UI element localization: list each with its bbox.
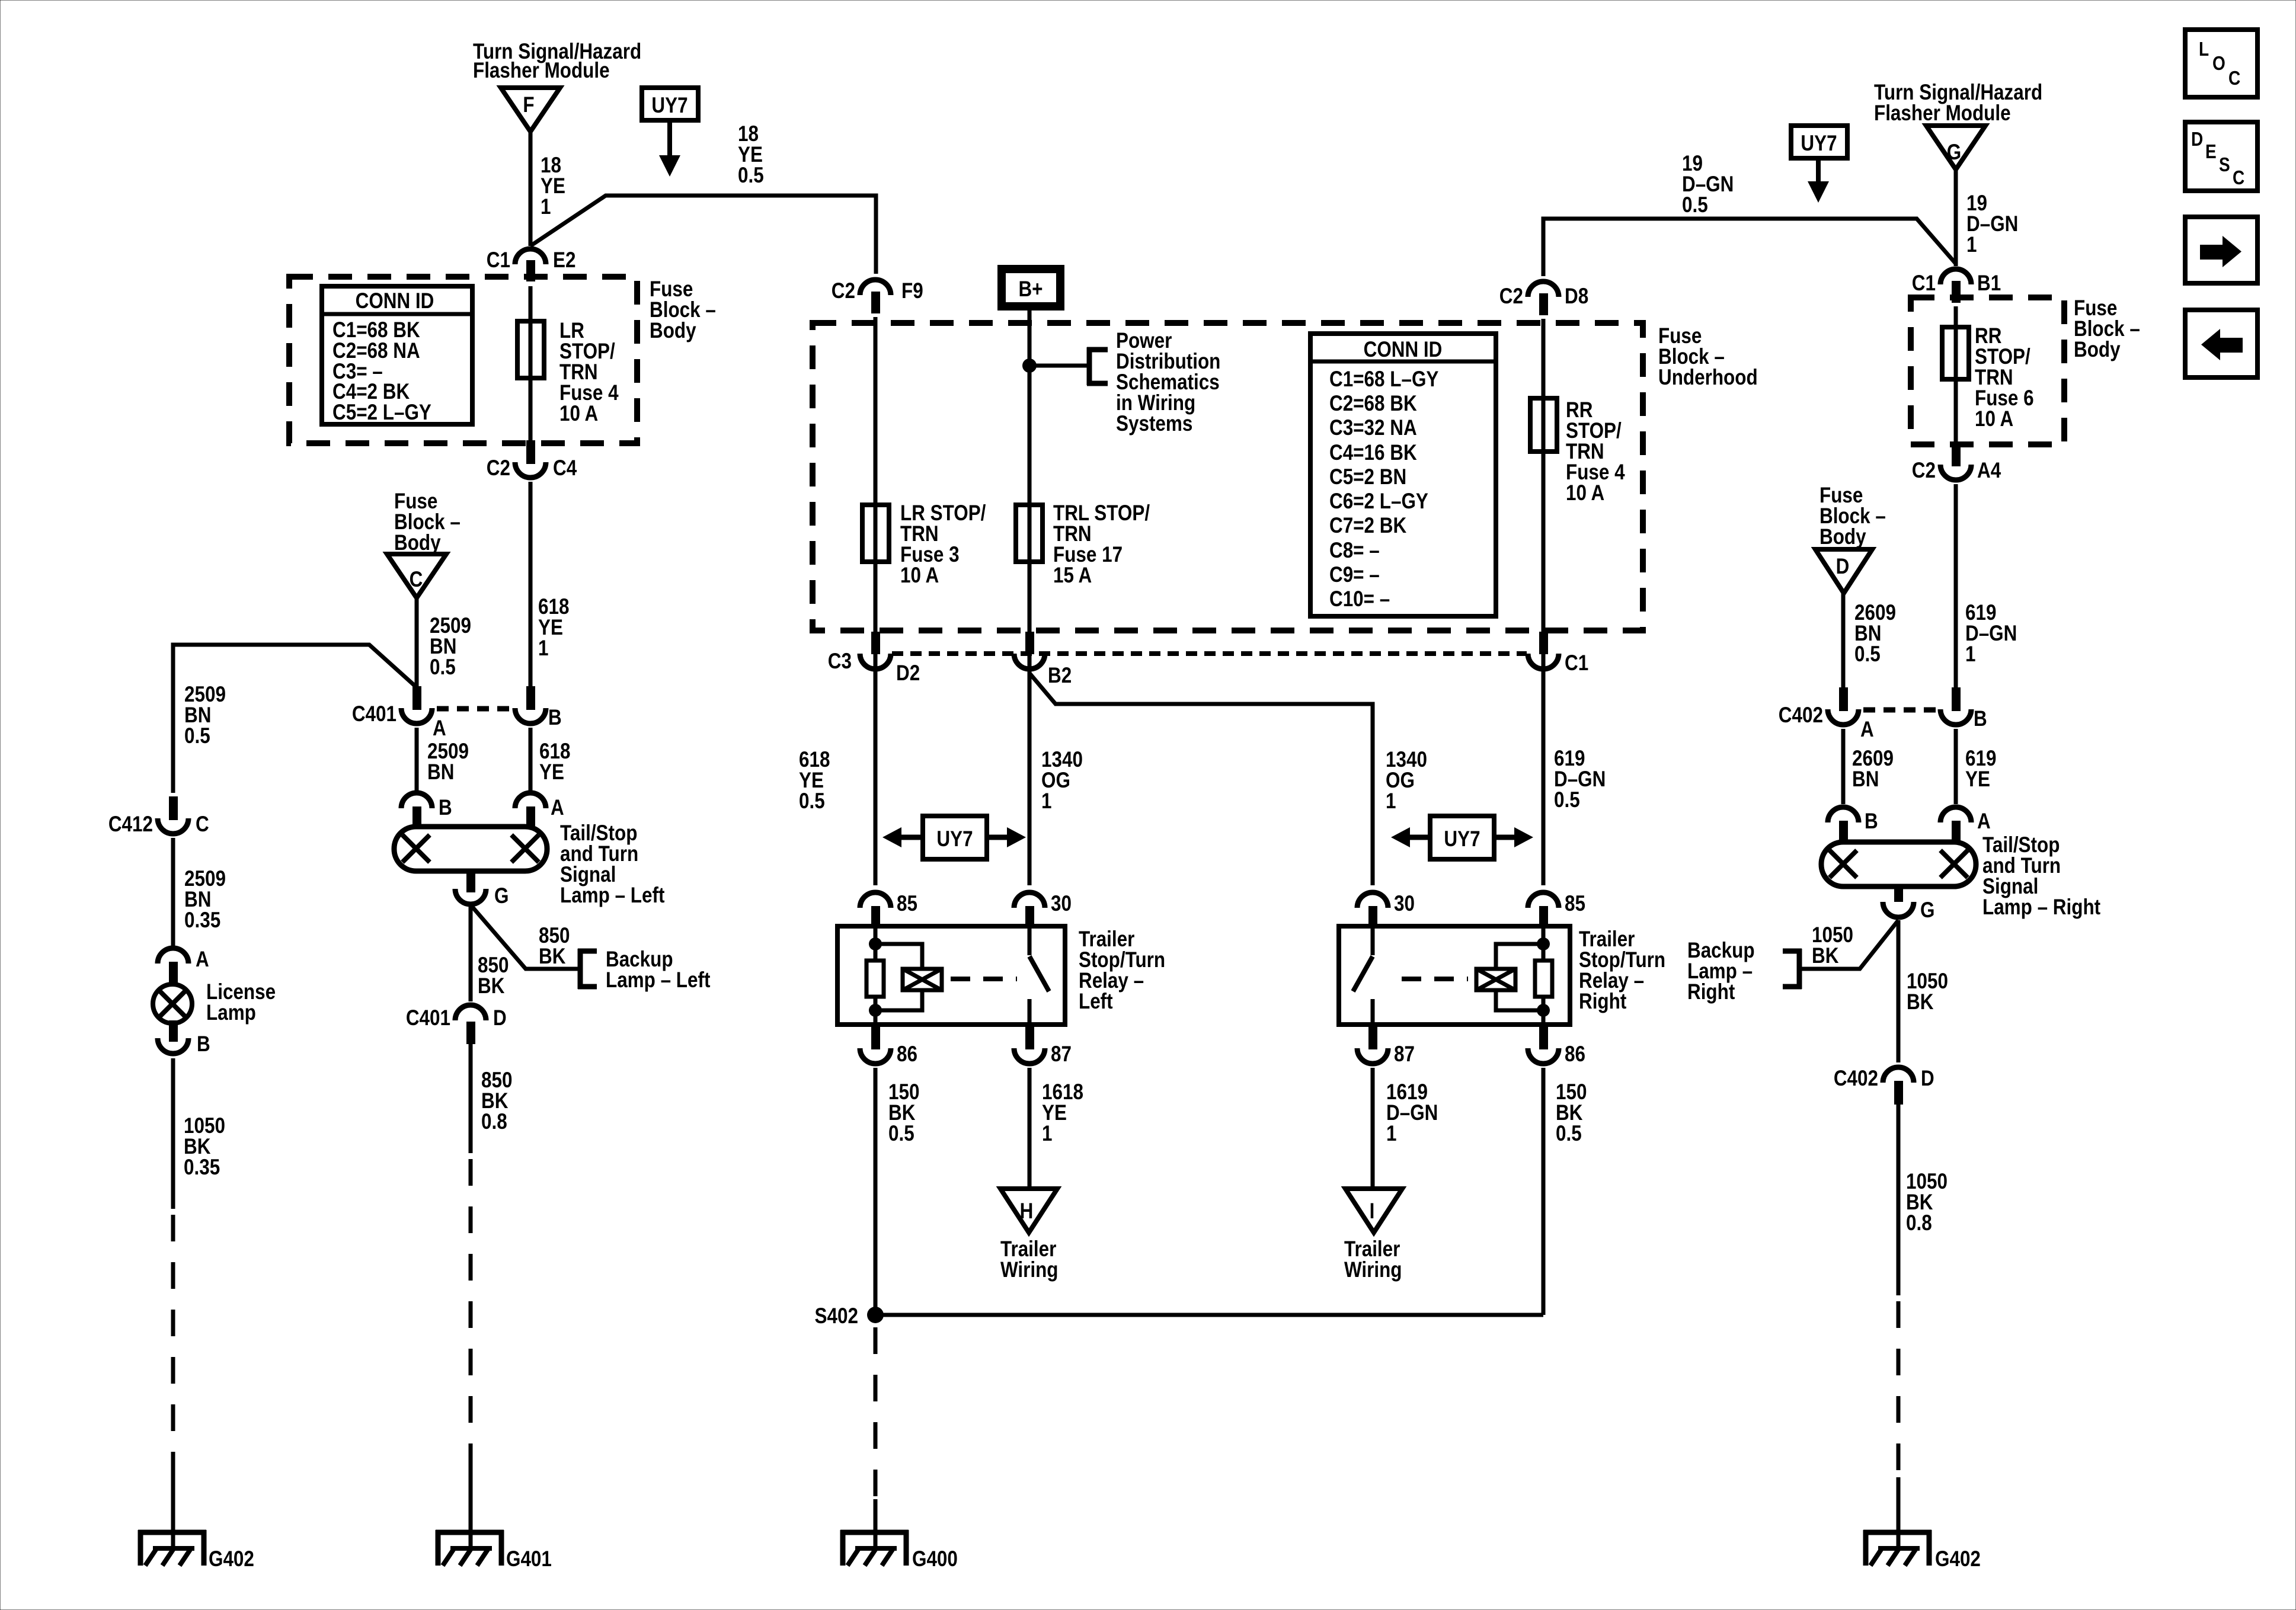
off-page triangle connector I: [1345, 1189, 1402, 1233]
svg-text:0.8: 0.8: [1906, 1211, 1932, 1235]
wire label 618 YE 0.5: [799, 748, 830, 814]
connector C3/D2: [828, 632, 920, 686]
svg-text:Systems: Systems: [1116, 412, 1192, 436]
wire 86 left to S402: [874, 1068, 878, 1315]
CONN ID table (body fuse block): [322, 286, 472, 425]
svg-text:1: 1: [1042, 1122, 1052, 1146]
dashed box Fuse Block - Body (right): [1911, 297, 2064, 444]
svg-text:Left: Left: [1079, 990, 1113, 1014]
fuse RR STOP/TRN Fuse 4 (underhood): [1530, 398, 1557, 452]
svg-text:86: 86: [897, 1042, 917, 1067]
label RR STOP/TRN Fuse 4 10 A: [1566, 398, 1625, 505]
svg-text:B1: B1: [1977, 271, 2001, 296]
label LR STOP/TRN Fuse 3 10 A: [900, 501, 986, 588]
label Trailer Stop/Turn Relay - Right: [1579, 927, 1665, 1014]
svg-text:C1=68 L–GY: C1=68 L–GY: [1329, 367, 1438, 392]
svg-text:C1: C1: [1912, 271, 1936, 296]
connector 85 (relay right): [1528, 892, 1585, 929]
svg-text:1: 1: [1386, 1122, 1396, 1146]
resistor (relay left): [866, 961, 884, 997]
dashed connector link C402: [1863, 708, 1937, 713]
junction node (relay left top): [869, 937, 882, 950]
wire D to ground G401: [469, 1044, 473, 1532]
switch (relay right): [1353, 926, 1373, 1025]
reference box UY7 (top left): [642, 88, 698, 120]
svg-text:A: A: [433, 716, 446, 741]
svg-text:Right: Right: [1579, 990, 1627, 1014]
svg-text:G401: G401: [506, 1547, 552, 1571]
svg-text:C4=16 BK: C4=16 BK: [1329, 441, 1417, 465]
wire label 19 D-GN 1: [1966, 191, 2018, 257]
svg-text:F9: F9: [901, 279, 923, 303]
svg-text:0.5: 0.5: [1682, 193, 1708, 217]
legend box DESC: [2185, 122, 2257, 191]
fuse LR STOP/TRN Fuse 3: [862, 505, 889, 562]
wire G diagonal to backup lamp right: [1799, 920, 1898, 969]
svg-text:15 A: 15 A: [1053, 564, 1092, 588]
wire F9 through Fuse 3 to C3: [874, 317, 878, 687]
ground G402 (right): [1863, 1530, 1981, 1571]
label Tail/Stop and Turn Signal Lamp - Right: [1982, 833, 2101, 920]
label Turn Signal/Hazard Flasher Module (right): [1874, 81, 2042, 126]
svg-text:D: D: [493, 1006, 507, 1030]
wire label 1340 OG 1 (right): [1386, 748, 1427, 814]
svg-text:C2: C2: [1499, 284, 1523, 309]
svg-text:Lamp: Lamp: [206, 1001, 256, 1025]
svg-text:10 A: 10 A: [559, 402, 598, 426]
wire D to C402-A: [1841, 593, 1846, 687]
wire through fuse 4: [529, 286, 533, 443]
svg-text:C5=2 L–GY: C5=2 L–GY: [332, 401, 431, 425]
label Fuse Block - Underhood: [1658, 324, 1758, 390]
wire label 2509 BN 0.5 (upper): [430, 614, 471, 680]
svg-text:C: C: [2228, 68, 2240, 89]
svg-text:C1: C1: [487, 248, 510, 273]
wire TRL fuse 17: [1016, 505, 1043, 562]
switch (relay left): [1029, 926, 1049, 1025]
fuse RR STOP/TRN Fuse 6: [1942, 327, 1969, 379]
wire label 850 BK (diagonal): [539, 924, 570, 969]
wire label 619 D-GN 0.5: [1554, 747, 1606, 812]
wire label 18 YE 1: [541, 153, 565, 219]
connector C401-D: [406, 1005, 507, 1044]
svg-text:Body: Body: [2074, 338, 2121, 362]
wire label 618 YE: [539, 740, 570, 785]
linkage dashed (relay right): [1402, 977, 1468, 981]
svg-text:0.5: 0.5: [888, 1122, 914, 1146]
wire label 619 D-GN 1: [1965, 601, 2017, 667]
svg-text:C10= –: C10= –: [1329, 587, 1390, 612]
wire B to ground G402 (left): [171, 1058, 175, 1532]
svg-text:A: A: [1860, 718, 1874, 742]
svg-text:0.5: 0.5: [430, 655, 456, 680]
label Fuse Block - Body (C triangle): [394, 489, 461, 555]
connector C2/F9: [832, 279, 923, 313]
svg-text:O: O: [2212, 53, 2225, 75]
splice S402 horizontal wire: [875, 1313, 1543, 1317]
connector 30 (relay left): [1014, 892, 1072, 929]
off-page triangle connector F: [501, 88, 560, 132]
svg-text:BK: BK: [539, 945, 566, 969]
label Trailer Stop/Turn Relay - Left: [1079, 927, 1165, 1014]
svg-text:0.5: 0.5: [1554, 788, 1580, 812]
connector 86 (relay right): [1528, 1027, 1585, 1067]
svg-text:0.35: 0.35: [184, 1156, 220, 1180]
svg-text:C2: C2: [832, 279, 855, 303]
svg-text:Flasher Module: Flasher Module: [1874, 101, 2011, 126]
svg-text:C2: C2: [1912, 459, 1936, 483]
svg-text:G: G: [494, 884, 509, 908]
connector C401-A: [352, 686, 446, 741]
wire label 619 YE: [1965, 747, 1996, 792]
svg-text:UY7: UY7: [936, 827, 973, 852]
connector 85 (relay left): [860, 892, 917, 929]
arrow from UY7 down: [659, 120, 680, 177]
connector C402-A: [1779, 687, 1874, 742]
wire G diagonal to backup lamp left: [471, 905, 580, 969]
svg-text:S402: S402: [815, 1304, 858, 1329]
svg-text:A: A: [196, 948, 209, 972]
wire label 850 BK (vertical): [478, 953, 509, 998]
label Power Distribution Schematics in Wiring Systems: [1116, 329, 1220, 436]
coil (relay left): [903, 969, 942, 990]
wire label 2509 BN 0.5 (left): [184, 683, 226, 748]
svg-text:1: 1: [1966, 233, 1977, 257]
off-page triangle connector C: [387, 554, 446, 598]
power feed B+: [1002, 269, 1060, 306]
svg-text:G402: G402: [1935, 1547, 1981, 1571]
svg-text:B: B: [197, 1032, 210, 1057]
trailer stop/turn relay - left box: [837, 926, 1065, 1025]
svg-text:UY7: UY7: [1444, 827, 1480, 852]
svg-text:BK: BK: [1812, 944, 1839, 968]
wire 87 right to I: [1371, 1068, 1375, 1189]
wire C401-A to lamp B: [415, 728, 419, 791]
wire C1 to relay 85 (right): [1542, 673, 1546, 885]
svg-text:C2: C2: [487, 456, 510, 481]
legend box LOC: [2185, 30, 2257, 97]
ground G402 (left): [138, 1530, 254, 1571]
dotted harness boundary: [892, 651, 1527, 656]
svg-text:87: 87: [1051, 1042, 1072, 1067]
wire fuse 17 to B2: [1028, 562, 1032, 687]
wire G to C1/B1: [1954, 169, 1958, 266]
svg-text:H: H: [1020, 1199, 1034, 1224]
off-page triangle connector G: [1926, 126, 1985, 169]
svg-text:D: D: [2191, 129, 2203, 151]
connector A (tail lamp right): [1940, 807, 1991, 844]
svg-text:C3: C3: [828, 649, 852, 674]
svg-text:C401: C401: [406, 1006, 450, 1030]
CONN ID table (underhood fuse block): [1310, 334, 1496, 616]
wire label 2509 BN 0.35: [184, 867, 226, 933]
tail/stop and turn signal lamp - right: [1821, 842, 1976, 886]
svg-text:Lamp – Left: Lamp – Left: [560, 884, 665, 908]
wire branch to license lamp: [173, 645, 417, 793]
dashed box Fuse Block - Underhood: [813, 323, 1643, 630]
svg-text:1: 1: [1386, 789, 1396, 814]
trailer stop/turn relay - right box: [1339, 926, 1570, 1025]
svg-text:1: 1: [1041, 789, 1051, 814]
wire junction to power distribution bracket: [1029, 364, 1089, 368]
wire B+ down to Fuse 17: [1028, 306, 1032, 505]
wire C402-B to lamp A: [1954, 729, 1958, 804]
label LR STOP/TRN Fuse 4 10 A: [559, 319, 619, 426]
label License Lamp: [206, 980, 276, 1025]
svg-text:A: A: [1977, 809, 1991, 834]
connector A (license lamp): [158, 948, 209, 985]
svg-text:B: B: [1865, 809, 1878, 834]
label Backup Lamp - Right: [1687, 939, 1755, 1004]
wire S402 to ground G400: [874, 1327, 878, 1532]
svg-text:Body: Body: [394, 531, 441, 555]
svg-text:B: B: [1974, 707, 1987, 731]
svg-text:UY7: UY7: [1801, 132, 1837, 156]
svg-text:G: G: [1947, 140, 1961, 165]
junction node (relay right top): [1537, 937, 1550, 950]
svg-text:D: D: [1836, 555, 1850, 579]
svg-text:UY7: UY7: [651, 94, 687, 118]
svg-text:0.5: 0.5: [1556, 1122, 1582, 1146]
junction node (B+ branch): [1022, 359, 1037, 373]
svg-text:BN: BN: [1852, 767, 1879, 792]
connector C2/D8: [1499, 281, 1588, 315]
dashed box Fuse Block - Body (left): [289, 277, 637, 443]
svg-text:1: 1: [1965, 642, 1975, 667]
connector C2/A4: [1912, 443, 2001, 483]
wire G down to C401-D: [469, 905, 473, 1001]
svg-text:B: B: [439, 796, 452, 820]
svg-text:G: G: [1920, 898, 1934, 923]
wire F to C1/E2: [529, 132, 533, 246]
svg-text:C401: C401: [352, 702, 396, 726]
svg-text:0.8: 0.8: [481, 1110, 507, 1134]
svg-text:10 A: 10 A: [1566, 481, 1604, 505]
svg-text:L: L: [2199, 39, 2209, 60]
svg-text:0.35: 0.35: [184, 908, 220, 933]
label Fuse Block - Body (top right): [2074, 296, 2140, 362]
connector G (tail lamp right): [1883, 885, 1934, 923]
wire label 18 YE 0.5: [738, 122, 764, 188]
connector C2/C4: [487, 440, 577, 481]
svg-text:B: B: [548, 706, 562, 730]
svg-text:C402: C402: [1834, 1067, 1878, 1091]
svg-text:C6=2 L–GY: C6=2 L–GY: [1329, 489, 1428, 514]
svg-text:C412: C412: [108, 812, 153, 837]
svg-text:0.5: 0.5: [184, 724, 210, 748]
svg-text:F: F: [523, 93, 534, 117]
svg-text:Body: Body: [650, 319, 696, 343]
svg-text:D8: D8: [1565, 284, 1588, 309]
svg-text:C8= –: C8= –: [1329, 539, 1380, 563]
relay left coil branch wiring: [875, 926, 922, 1025]
svg-text:85: 85: [1565, 892, 1585, 916]
wire G down to C402-D: [1897, 920, 1901, 1062]
svg-text:C2=68 BK: C2=68 BK: [1329, 392, 1417, 416]
wire label 850 BK 0.8: [481, 1068, 512, 1134]
junction node (relay right bottom): [1537, 1004, 1550, 1017]
svg-text:C: C: [196, 812, 209, 837]
svg-text:E: E: [2205, 141, 2217, 163]
connector G (tail lamp left): [455, 871, 509, 908]
dashed connector link C401: [437, 706, 510, 712]
connector 30 (relay right): [1357, 892, 1415, 929]
wire C402-A to lamp B: [1841, 729, 1846, 804]
svg-text:A: A: [551, 796, 564, 820]
svg-text:1: 1: [538, 636, 548, 661]
wire C401-B to lamp A: [529, 728, 533, 791]
connector B (license lamp): [158, 1020, 210, 1057]
svg-text:85: 85: [897, 892, 917, 916]
reference box UY7 (top right): [1791, 126, 1847, 158]
svg-text:Underhood: Underhood: [1658, 366, 1758, 390]
label Backup Lamp - Left: [606, 948, 711, 993]
connector B (tail lamp left): [401, 793, 452, 830]
svg-text:0.5: 0.5: [738, 164, 764, 188]
wire D8 through RR fuse 4 to C1: [1542, 319, 1546, 687]
label Fuse Block - Body (D triangle): [1819, 484, 1886, 549]
wire 87 left to H: [1028, 1068, 1032, 1189]
wire label 618 YE 1: [538, 595, 569, 661]
relay right coil branch wiring: [1496, 926, 1543, 1025]
wire label 1340 OG 1 (left): [1041, 748, 1083, 814]
connector C412/C: [108, 796, 209, 837]
svg-text:BK: BK: [1907, 990, 1934, 1014]
connector C402-D: [1834, 1067, 1934, 1105]
wire label 1618 YE 1: [1042, 1080, 1083, 1146]
svg-text:Flasher Module: Flasher Module: [473, 59, 610, 83]
legend box arrow left: [2185, 310, 2257, 377]
ground G400: [840, 1530, 958, 1571]
off-page triangle connector H: [1000, 1189, 1057, 1233]
wire label 150 BK 0.5 (left): [888, 1080, 919, 1146]
wire label 2609 BN: [1852, 747, 1894, 792]
svg-text:D2: D2: [896, 661, 920, 686]
off-page triangle connector D: [1815, 549, 1872, 593]
svg-text:Wiring: Wiring: [1000, 1258, 1059, 1282]
wire A4 to C402-B: [1954, 484, 1958, 687]
label TRL STOP/TRN Fuse 17 15 A: [1053, 501, 1150, 588]
svg-text:C402: C402: [1779, 703, 1823, 728]
reference box UY7 (mid right) with arrows: [1391, 816, 1533, 859]
legend box arrow right: [2185, 217, 2257, 283]
connector 87 (relay left): [1014, 1027, 1072, 1067]
wire label 1050 BK 0.35: [184, 1114, 225, 1180]
svg-text:BN: BN: [427, 760, 454, 785]
svg-text:Lamp – Right: Lamp – Right: [1982, 895, 2101, 920]
connector C401-B: [515, 686, 562, 730]
svg-text:Wiring: Wiring: [1344, 1258, 1402, 1282]
label RR STOP/TRN Fuse 6 10 A: [1975, 324, 2034, 431]
wire label 2509 BN: [427, 740, 469, 785]
arrow from UY7 down (right): [1808, 158, 1829, 203]
svg-text:87: 87: [1394, 1042, 1415, 1067]
svg-text:30: 30: [1051, 892, 1072, 916]
connector 87 (relay right): [1357, 1027, 1415, 1067]
wire label 1619 D-GN 1: [1386, 1080, 1438, 1146]
splice node S402: [815, 1304, 884, 1329]
svg-text:G400: G400: [912, 1547, 958, 1571]
svg-text:Right: Right: [1687, 980, 1735, 1004]
svg-text:C7=2 BK: C7=2 BK: [1329, 514, 1406, 538]
coil (relay right): [1476, 969, 1515, 990]
backup lamp right bracket: [1783, 949, 1802, 989]
svg-text:10 A: 10 A: [900, 564, 939, 588]
svg-text:I: I: [1370, 1199, 1375, 1224]
wire B2 to relay 30 (left): [1028, 673, 1032, 885]
svg-text:0.5: 0.5: [799, 789, 825, 814]
connector B2: [1014, 632, 1072, 688]
label Trailer Wiring (left): [1000, 1237, 1059, 1282]
svg-text:86: 86: [1565, 1042, 1585, 1067]
junction node (relay left bottom): [869, 1004, 882, 1017]
wire C412 to license lamp A: [171, 838, 175, 946]
wire D2 to relay 85: [874, 673, 878, 885]
svg-text:Lamp – Left: Lamp – Left: [606, 968, 711, 993]
svg-text:1: 1: [541, 195, 551, 219]
wire label 1050 BK (diagonal): [1812, 923, 1853, 968]
license lamp: [153, 984, 192, 1023]
svg-text:C: C: [2233, 167, 2244, 189]
linkage dashed (relay left): [951, 977, 1017, 981]
svg-text:YE: YE: [1965, 767, 1990, 792]
resistor (relay right): [1535, 961, 1552, 997]
svg-text:B+: B+: [1018, 277, 1043, 302]
wire label 2609 BN 0.5: [1854, 601, 1896, 667]
svg-text:D: D: [1921, 1067, 1934, 1091]
wire label 1050 BK 0.8: [1906, 1170, 1948, 1235]
wire B2 branch to relay 30 (right): [1029, 673, 1373, 885]
svg-text:30: 30: [1394, 892, 1415, 916]
connector C1/B1: [1912, 269, 2001, 303]
connector C1/E2: [487, 248, 576, 281]
svg-text:A4: A4: [1977, 459, 2001, 483]
wire C to C401-A: [415, 598, 419, 687]
svg-text:C9= –: C9= –: [1329, 563, 1380, 587]
label Fuse Block - Body (top left): [650, 277, 716, 343]
wire C4 to C401-B: [529, 482, 533, 686]
wire 86 right down to S402 run: [1542, 1068, 1546, 1315]
svg-text:C5=2 BN: C5=2 BN: [1329, 465, 1406, 489]
wire label 1050 BK (vertical): [1907, 969, 1948, 1014]
label Trailer Wiring (right): [1344, 1237, 1402, 1282]
svg-text:C: C: [410, 568, 423, 592]
wire B1 through fuse 6 to A4: [1954, 306, 1958, 444]
svg-text:C3=32 NA: C3=32 NA: [1329, 416, 1417, 440]
svg-text:Body: Body: [1819, 525, 1866, 549]
svg-text:C1: C1: [1565, 651, 1588, 676]
svg-text:C4: C4: [553, 456, 577, 481]
label Turn Signal/Hazard Flasher Module (left): [473, 40, 641, 83]
svg-text:B2: B2: [1048, 664, 1072, 688]
svg-text:E2: E2: [553, 248, 575, 273]
connector A (tail lamp left): [515, 793, 564, 830]
backup lamp left bracket: [578, 949, 597, 989]
svg-text:YE: YE: [539, 760, 564, 785]
svg-text:0.5: 0.5: [1854, 642, 1881, 667]
wire D to ground G402 (right): [1897, 1105, 1901, 1532]
connector C1 (underhood right): [1528, 632, 1588, 676]
connector C402-B: [1940, 687, 1987, 731]
svg-text:BK: BK: [478, 974, 505, 998]
wire D8 horizontal run to B1: [1543, 219, 1956, 276]
svg-text:S: S: [2219, 154, 2230, 176]
fuse LR STOP/TRN Fuse 4: [517, 321, 544, 378]
label Tail/Stop and Turn Signal Lamp - Left: [560, 821, 665, 908]
ground G401: [436, 1530, 552, 1571]
svg-text:G402: G402: [209, 1547, 254, 1571]
svg-text:CONN ID: CONN ID: [356, 289, 434, 313]
